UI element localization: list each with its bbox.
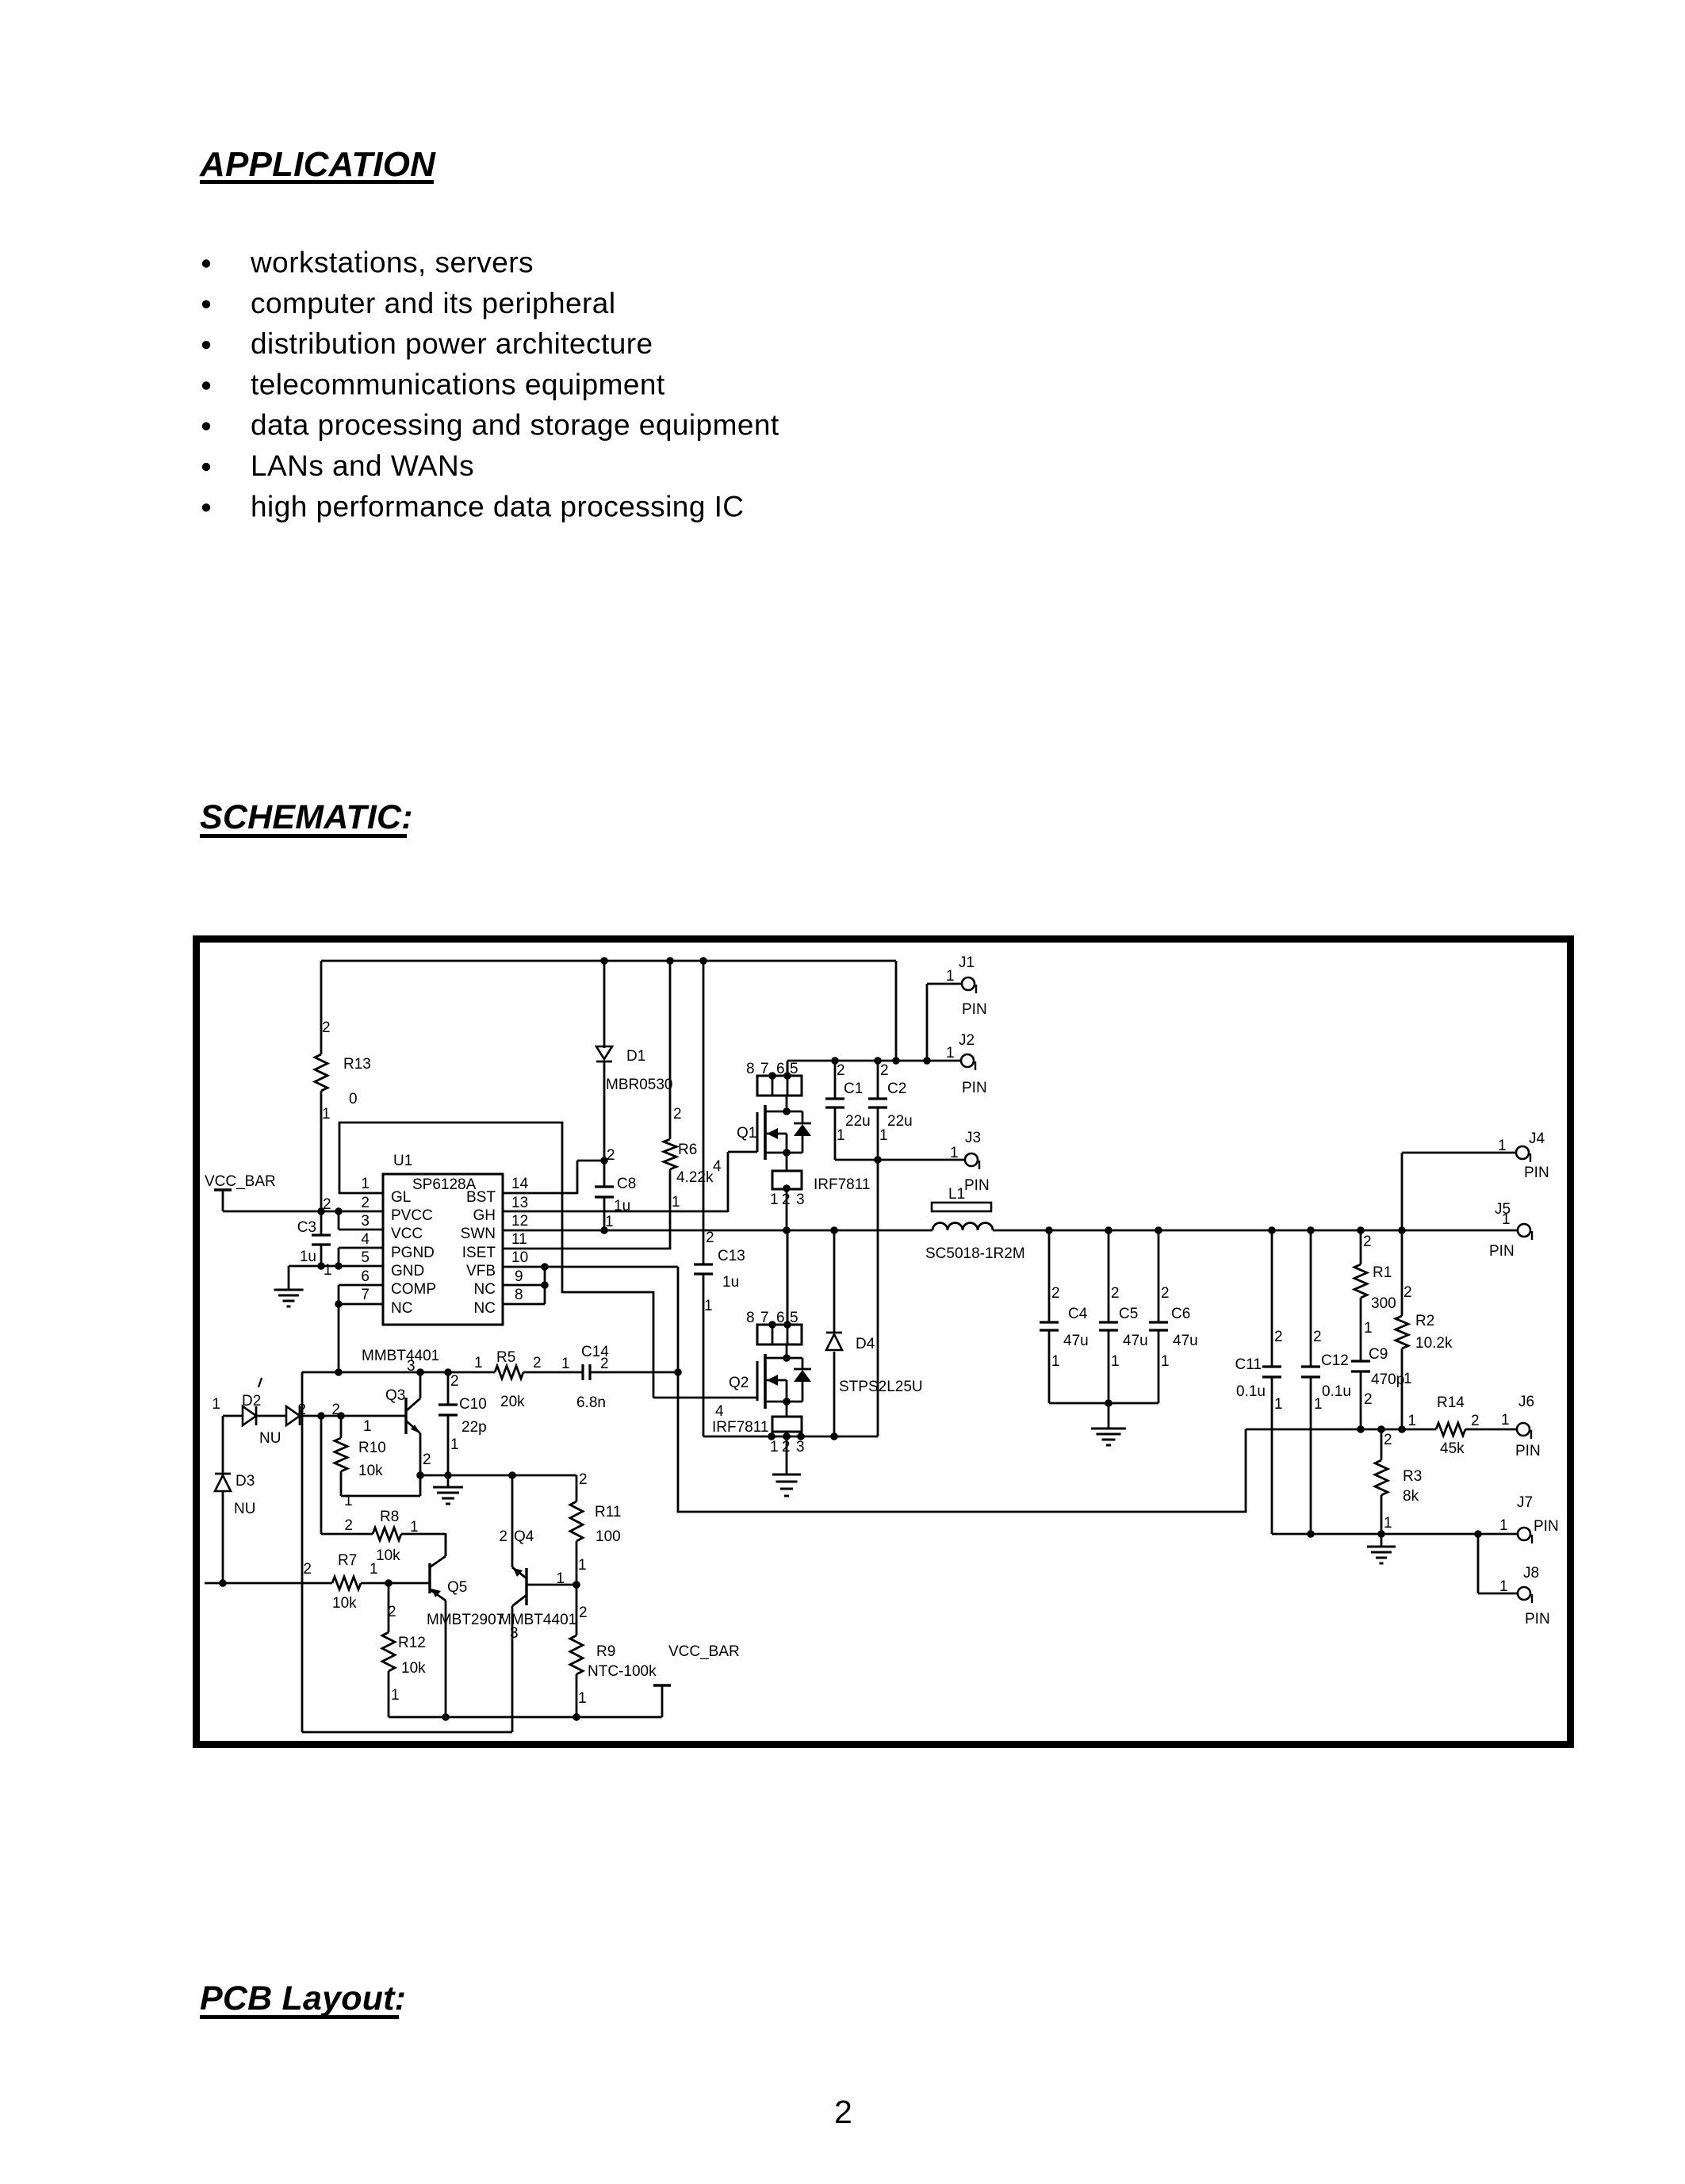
svg-text:ISET: ISET [462,1245,496,1261]
svg-text:PIN: PIN [962,1001,987,1018]
ground at Q2 source [772,1436,801,1496]
wire feedback route from C14 node [677,1372,1247,1512]
connector J2 [946,1032,987,1096]
svg-text:2: 2 [600,1356,609,1372]
page number 2 [834,2094,852,2130]
svg-text:1u: 1u [300,1249,316,1265]
heading APPLICATION [199,145,436,184]
bullet list: applications [202,247,779,523]
svg-text:22p: 22p [461,1419,487,1436]
svg-text:C12: C12 [1321,1352,1349,1369]
svg-text:1: 1 [672,1194,680,1211]
svg-text:12: 12 [511,1213,528,1230]
svg-text:47u: 47u [1063,1333,1089,1349]
svg-text:3: 3 [796,1191,805,1208]
connector J5 [1489,1201,1532,1260]
svg-text:SCHEMATIC:: SCHEMATIC: [200,798,413,836]
power VCC_BAR left [205,1173,276,1211]
svg-text:10k: 10k [401,1660,426,1677]
svg-text:1: 1 [1161,1353,1170,1370]
connector J7 [1499,1494,1559,1543]
svg-text:1: 1 [1404,1371,1412,1387]
svg-text:J4: J4 [1529,1130,1545,1147]
svg-text:10k: 10k [376,1547,400,1564]
svg-text:D3: D3 [236,1473,255,1490]
svg-text:distribution power architectur: distribution power architecture [251,327,653,360]
svg-text:1: 1 [1274,1396,1283,1413]
svg-text:BST: BST [466,1189,496,1206]
svg-text:MMBT4401: MMBT4401 [499,1612,576,1628]
svg-text:2: 2 [673,1106,682,1123]
wire U1 pin1 GL stub [339,1192,383,1195]
svg-text:2: 2 [834,2094,852,2130]
svg-text:2: 2 [499,1528,507,1545]
svg-text:R12: R12 [398,1635,426,1651]
capacitor C1 22u [825,1061,871,1160]
wire bottom emitter bus [389,1716,662,1719]
svg-text:J6: J6 [1518,1394,1534,1410]
svg-text:IRF7811: IRF7811 [814,1176,870,1193]
resistor R7 10k [205,1552,430,1612]
svg-text:VFB: VFB [466,1263,496,1279]
transistor Q4 MMBT4401 mirrored [499,1474,576,1732]
svg-text:NC: NC [474,1300,496,1317]
svg-text:4: 4 [361,1231,370,1248]
svg-text:R14: R14 [1437,1394,1465,1411]
svg-text:telecommunications equipment: telecommunications equipment [251,368,665,400]
svg-text:2: 2 [533,1355,542,1371]
svg-text:2: 2 [1161,1285,1170,1302]
svg-text:R6: R6 [678,1142,697,1158]
capacitor C4 47u [1040,1230,1089,1403]
svg-text:7: 7 [760,1310,769,1326]
wire output rail to J5 [993,1230,1517,1232]
wire U1 pin12 SWN rail [503,1230,932,1232]
svg-text:3: 3 [796,1439,805,1455]
wire U1 pin8 NC stub [503,1303,545,1306]
wire U1 pin2 PVCC net [223,1211,383,1213]
svg-text:VCC_BAR: VCC_BAR [205,1173,276,1190]
svg-text:11: 11 [511,1231,527,1248]
svg-text:2: 2 [1274,1329,1283,1345]
svg-text:NU: NU [259,1430,281,1447]
heading PCB Layout: [200,1979,406,2019]
svg-text:COMP: COMP [391,1281,436,1298]
svg-text:1: 1 [578,1557,587,1574]
svg-text:2: 2 [388,1604,396,1620]
svg-text:1: 1 [391,1687,400,1704]
svg-text:NTC-100k: NTC-100k [588,1663,657,1680]
capacitor C13 1u [694,961,745,1436]
svg-text:C2: C2 [887,1081,906,1097]
transistor Q1 source pin box [770,1153,805,1230]
wire Q3 base node bus [302,1371,495,1374]
svg-text:300: 300 [1371,1295,1396,1312]
svg-text:L1: L1 [948,1186,965,1203]
svg-text:1: 1 [578,1690,587,1707]
svg-text:SWN: SWN [461,1226,496,1242]
svg-text:J2: J2 [959,1032,975,1049]
svg-text:high performance data processi: high performance data processing IC [251,490,744,522]
svg-text:C8: C8 [617,1176,636,1192]
svg-text:1: 1 [1051,1353,1060,1370]
svg-text:C3: C3 [297,1219,316,1236]
svg-text:1: 1 [1407,1413,1416,1429]
svg-text:MBR0530: MBR0530 [606,1077,673,1093]
svg-text:MMBT4401: MMBT4401 [362,1348,439,1364]
wire C4-C6 ground tie [1049,1402,1158,1405]
svg-text:10k: 10k [358,1463,383,1479]
svg-text:PVCC: PVCC [391,1207,433,1224]
svg-text:1: 1 [1498,1138,1507,1154]
svg-text:VCC: VCC [391,1226,423,1242]
svg-text:2: 2 [837,1062,845,1079]
transistor Q5 MMBT2907 [427,1533,504,1717]
svg-text:2: 2 [1363,1234,1372,1250]
svg-text:GL: GL [391,1189,411,1206]
svg-text:1: 1 [770,1191,779,1208]
svg-text:3: 3 [361,1213,370,1230]
svg-text:Q4: Q4 [514,1528,534,1545]
svg-text:C5: C5 [1119,1306,1138,1322]
svg-text:C1: C1 [844,1081,863,1097]
wire U1 pin3 VCC stub [339,1211,383,1230]
svg-text:PCB Layout:: PCB Layout: [200,1979,406,2018]
ground below R3 [1367,1534,1396,1563]
svg-text:GH: GH [473,1207,496,1224]
resistor R10 10k [335,1416,420,1509]
diode D1 MBR0530 [596,961,673,1161]
svg-text:22u: 22u [887,1113,913,1130]
resistor R1 300 [1354,1230,1396,1361]
svg-text:U1: U1 [393,1153,412,1169]
svg-text:PIN: PIN [1515,1443,1541,1459]
svg-text:D4: D4 [856,1336,875,1352]
svg-text:2: 2 [361,1195,370,1211]
svg-text:1: 1 [344,1493,353,1509]
svg-text:PIN: PIN [964,1177,990,1194]
svg-text:R3: R3 [1403,1468,1422,1485]
svg-text:J7: J7 [1517,1494,1533,1511]
svg-text:1: 1 [1499,1517,1508,1534]
wire VIN top rail [321,960,896,962]
svg-text:9: 9 [515,1268,523,1285]
svg-text:C10: C10 [459,1396,487,1413]
resistor R13 0 [315,961,371,1211]
svg-text:2: 2 [1313,1329,1322,1345]
svg-text:J1: J1 [959,954,975,971]
svg-text:R8: R8 [380,1509,399,1525]
wire lower gnd bus [1272,1533,1517,1536]
svg-text:6.8n: 6.8n [576,1394,606,1411]
svg-text:4: 4 [713,1158,722,1175]
svg-text:1: 1 [946,1045,955,1061]
heading SCHEMATIC: [200,798,413,838]
wire U1 pin10 VFB [503,1267,678,1372]
svg-text:1: 1 [561,1356,570,1372]
svg-text:6: 6 [361,1268,370,1285]
svg-text:R13: R13 [343,1056,371,1073]
svg-text:1: 1 [556,1570,565,1587]
svg-text:5: 5 [361,1249,370,1266]
diode D4 STPS2L25U [826,1230,923,1436]
svg-text:C9: C9 [1369,1346,1388,1363]
capacitor C12 0.1u [1301,1230,1351,1534]
wire J8 stub [1478,1534,1517,1593]
svg-text:1u: 1u [722,1274,739,1291]
svg-text:2: 2 [322,1019,331,1036]
svg-text:MMBT2907: MMBT2907 [427,1612,504,1628]
svg-text:PIN: PIN [1534,1518,1559,1535]
svg-text:1: 1 [474,1355,483,1371]
svg-text:1: 1 [1502,1211,1511,1228]
svg-text:Q2: Q2 [729,1375,749,1391]
svg-text:1: 1 [837,1127,845,1144]
svg-text:data processing and storage eq: data processing and storage equipment [251,409,779,442]
svg-text:1: 1 [1501,1412,1510,1429]
svg-text:Q5: Q5 [447,1579,467,1596]
capacitor C8 1u [595,1147,636,1230]
svg-text:2: 2 [1384,1432,1392,1448]
svg-text:2: 2 [579,1605,588,1621]
svg-text:D2: D2 [242,1393,261,1409]
wire NC tie [544,1267,546,1304]
svg-text:J3: J3 [965,1130,981,1146]
capacitor C6 47u [1149,1230,1198,1403]
svg-text:PIN: PIN [1489,1243,1515,1260]
resistor R6 4.22k [664,961,714,1249]
svg-text:10: 10 [511,1249,528,1266]
resistor R5 20k [362,1348,583,1410]
svg-text:1: 1 [212,1396,220,1413]
transistor Q1 IRF7811 symbol [713,1096,870,1193]
wire Q3 emitter bus [420,1474,576,1477]
svg-text:R10: R10 [358,1440,386,1456]
svg-text:1: 1 [946,968,955,985]
svg-text:VCC_BAR: VCC_BAR [668,1643,740,1660]
diode D2 NU [212,1378,341,1447]
svg-text:8: 8 [515,1287,523,1303]
svg-text:1: 1 [324,1262,332,1279]
connector J4 [1498,1130,1549,1181]
svg-text:Q1: Q1 [737,1125,756,1142]
svg-text:1: 1 [363,1418,372,1435]
ground at output caps [1091,1403,1126,1445]
svg-text:APPLICATION: APPLICATION [199,145,436,184]
wire U1 pin9 NC stub [503,1284,545,1287]
svg-text:1: 1 [704,1298,713,1314]
svg-text:14: 14 [511,1176,529,1192]
wire GL route to Q2 gate [339,1122,757,1398]
resistor R8 10k [321,1416,446,1564]
transistor Q2 IRF7811 symbol [712,1344,811,1436]
capacitor C11 0.1u [1235,1230,1283,1534]
connector J3 [950,1130,990,1194]
svg-text:8k: 8k [1403,1488,1419,1505]
svg-text:7: 7 [361,1287,370,1303]
svg-text:4: 4 [715,1403,724,1420]
capacitor C3 1u [297,1196,332,1279]
svg-text:6: 6 [776,1310,785,1326]
svg-text:C4: C4 [1068,1306,1088,1322]
wire long vertical from base bus [301,1372,304,1732]
U1 pin numbers 8-14 [511,1176,529,1303]
svg-text:0.1u: 0.1u [1236,1383,1266,1400]
wire VIN bus to J2 [787,1060,961,1062]
svg-text:1: 1 [1314,1396,1323,1413]
ground at C10 [433,1475,463,1504]
svg-text:1: 1 [1499,1578,1508,1595]
svg-text:1: 1 [370,1561,378,1578]
transistor Q1 IRF7811 drain pin box [746,1061,802,1096]
capacitor C2 22u [868,1061,913,1160]
svg-text:1: 1 [879,1127,888,1144]
svg-text:R9: R9 [596,1643,615,1660]
svg-text:47u: 47u [1173,1333,1198,1349]
transistor Q3 MMBT4401 [341,1372,431,1496]
wire J4 stub [1402,1153,1516,1230]
transistor Q2 source pin box [770,1402,805,1455]
resistor R9 NTC-100k [570,1585,657,1717]
wire U1 pin5 GND [289,1265,383,1268]
svg-text:NC: NC [474,1281,496,1298]
svg-text:C6: C6 [1171,1306,1190,1322]
svg-text:PIN: PIN [1525,1611,1550,1627]
capacitor C9 470p [1351,1346,1404,1429]
op-amp U1 SP6128A buck controller [383,1153,503,1325]
svg-text:C13: C13 [718,1248,745,1264]
svg-text:2: 2 [880,1062,889,1079]
svg-text:C11: C11 [1235,1356,1262,1373]
svg-text:J8: J8 [1523,1565,1539,1582]
wire U1 pin13 GH route [503,1152,757,1212]
svg-text:2: 2 [303,1561,312,1578]
inductor L1 SC5018-1R2M [925,1186,1025,1262]
wire Q2 source ground bus [703,1436,878,1438]
svg-text:13: 13 [511,1195,528,1211]
wire U1 pin14 BST route [503,1161,604,1194]
svg-text:R2: R2 [1415,1313,1434,1329]
svg-text:1: 1 [450,1436,459,1453]
wire U1 pin4 PGND stub [339,1248,383,1267]
resistor R3 8k [1375,1429,1422,1534]
capacitor C5 47u [1099,1230,1148,1403]
svg-text:8: 8 [746,1061,755,1077]
svg-text:NC: NC [391,1300,412,1317]
svg-text:2: 2 [782,1191,791,1208]
wire input gnd column [877,1160,879,1436]
svg-text:PIN: PIN [1524,1165,1549,1181]
svg-text:1: 1 [410,1519,419,1536]
capacitor C10 22p [438,1372,487,1475]
wire J1 stub [927,984,962,1061]
wire feedback node bus [1246,1429,1436,1431]
svg-text:1: 1 [322,1106,331,1123]
svg-text:3: 3 [407,1358,416,1375]
svg-text:10.2k: 10.2k [1415,1335,1453,1352]
svg-text:47u: 47u [1123,1333,1148,1349]
wire U1 pin7 NC stub [339,1303,383,1306]
svg-text:2: 2 [450,1373,459,1390]
svg-text:2: 2 [1471,1413,1480,1429]
connector J8 [1499,1565,1550,1627]
svg-text:2: 2 [1404,1284,1412,1301]
svg-text:PIN: PIN [962,1080,987,1096]
U1 pin numbers 1-7 [361,1176,370,1303]
svg-text:0: 0 [349,1091,358,1107]
svg-text:NU: NU [234,1501,255,1517]
svg-text:1: 1 [1384,1515,1392,1532]
svg-text:STPS2L25U: STPS2L25U [839,1379,923,1395]
svg-text:22u: 22u [845,1113,871,1130]
svg-text:D1: D1 [626,1048,645,1065]
power VCC_BAR bottom [653,1643,740,1717]
svg-text:computer and its peripheral: computer and its peripheral [251,287,616,319]
svg-text:100: 100 [595,1528,621,1545]
ground at U1 GND [274,1266,304,1306]
svg-text:2: 2 [579,1471,588,1488]
svg-text:1: 1 [361,1176,370,1192]
svg-text:R7: R7 [338,1552,357,1569]
svg-text:R11: R11 [595,1504,621,1520]
svg-text:45k: 45k [1440,1440,1465,1457]
svg-text:IRF7811: IRF7811 [712,1419,768,1436]
svg-text:6: 6 [776,1061,785,1077]
svg-text:GND: GND [391,1263,424,1279]
wire C1/C2 ground tie to J3 [835,1159,965,1161]
svg-text:R5: R5 [496,1349,515,1366]
svg-text:1: 1 [950,1145,959,1161]
wire VIN drop [895,961,898,1061]
svg-text:8: 8 [746,1310,755,1326]
connector J6 [1501,1394,1541,1459]
connector J1 [946,954,987,1018]
wire U1 pin6 COMP [339,1285,383,1372]
svg-text:0.1u: 0.1u [1322,1383,1351,1400]
svg-text:7: 7 [760,1061,769,1077]
svg-text:R1: R1 [1373,1264,1392,1281]
capacitor C14 6.8n [561,1344,678,1411]
svg-text:SC5018-1R2M: SC5018-1R2M [925,1245,1025,1262]
schematic border frame [197,939,1571,1745]
svg-text:1: 1 [1111,1353,1120,1370]
resistor R2 10.2k [1396,1230,1453,1429]
svg-text:workstations, servers: workstations, servers [250,247,534,279]
svg-text:2: 2 [1051,1285,1060,1302]
svg-text:2: 2 [344,1517,353,1534]
svg-text:2: 2 [1364,1391,1373,1408]
resistor R11 100 [570,1471,621,1585]
wire U1 pin11 ISET [503,1248,671,1250]
transistor Q2 IRF7811 drain pin box [746,1230,802,1344]
svg-text:2: 2 [706,1230,714,1246]
svg-text:2: 2 [423,1452,431,1468]
resistor R14 45k [1407,1394,1517,1457]
svg-text:20k: 20k [500,1394,525,1410]
svg-text:1: 1 [770,1439,779,1455]
svg-text:1: 1 [1364,1320,1373,1337]
svg-text:2: 2 [1111,1285,1120,1302]
svg-text:4.22k: 4.22k [676,1169,714,1186]
wire bottom return [302,1731,512,1734]
svg-text:470p: 470p [1371,1371,1404,1388]
svg-text:10k: 10k [332,1595,357,1612]
diode D3 NU [215,1416,255,1583]
svg-text:PGND: PGND [391,1245,435,1261]
svg-text:Q3: Q3 [385,1387,405,1404]
resistor R12 10k [382,1583,426,1717]
svg-text:LANs and WANs: LANs and WANs [251,449,474,482]
